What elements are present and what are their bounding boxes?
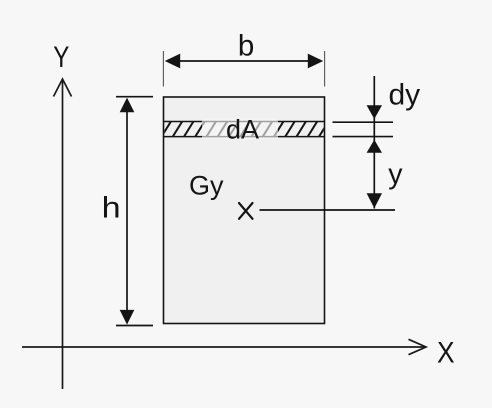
svg-text:y: y [388, 159, 403, 191]
svg-text:b: b [238, 30, 254, 63]
svg-text:h: h [102, 191, 121, 224]
svg-text:Y: Y [53, 41, 69, 74]
svg-text:dy: dy [389, 78, 421, 111]
svg-text:X: X [437, 337, 455, 370]
svg-text:dA: dA [226, 115, 259, 145]
svg-text:Gy: Gy [189, 171, 224, 201]
